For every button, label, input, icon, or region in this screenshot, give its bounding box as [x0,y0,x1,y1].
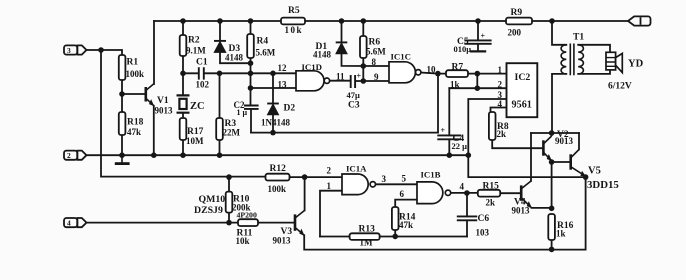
svg-text:10M: 10M [186,136,204,146]
svg-text:10k: 10k [236,236,250,246]
wire C6 top lead [466,193,468,216]
wire feedback net R13 left [320,236,350,238]
svg-text:R9: R9 [511,8,523,18]
svg-text:11: 11 [336,72,345,82]
svg-text:IC2: IC2 [515,72,531,83]
wire T1 primary top lead [552,21,566,45]
wire D2 top lead [272,73,274,103]
svg-text:IC1C: IC1C [391,52,412,62]
svg-text:8: 8 [372,57,377,67]
wire V3 collector riser [304,177,306,210]
svg-text:QM10: QM10 [199,194,226,205]
svg-text:100k: 100k [126,69,145,79]
svg-text:103: 103 [476,228,490,238]
wire V5 base from node [552,161,571,163]
svg-text:R2: R2 [188,36,200,46]
resistor R3 [216,118,223,140]
wire right edge V5 emitter to bottom rail [585,177,587,250]
wire IC1C pin 8 [363,65,389,67]
wire C5 bottom stub [477,44,479,51]
svg-text:ZC: ZC [190,101,205,112]
nand gate IC1A [342,174,375,195]
wire collector node horizontal [531,132,579,134]
wire ZC bottom to R17 [182,113,184,118]
svg-text:2: 2 [498,79,503,89]
svg-text:4148: 4148 [313,50,332,60]
wire T1 secondary top to speaker [578,45,610,53]
junction R16 bottom rail [549,247,555,253]
transistor V4 [521,181,531,208]
wire R2 bottom lead [182,56,184,73]
svg-text:3: 3 [382,174,387,184]
wire R4 top lead [250,21,252,34]
wire T1 secondary bottom to speaker [578,70,610,74]
svg-text:+: + [441,126,446,135]
junction pin8 node [361,63,367,69]
wire C4 bottom to ground rail [448,139,450,155]
wire top supply rail middle segment [305,20,506,22]
wire C2/D2 net riser [437,74,439,133]
svg-text:5: 5 [402,173,407,183]
junction D2 bottom [270,130,276,136]
resistor R14 [392,207,399,230]
nand gate IC1D [296,71,330,91]
svg-text:2: 2 [327,166,332,176]
junction D3 top rail [217,18,223,24]
wire R18 bottom to ground rail [121,135,123,155]
svg-text:IC1B: IC1B [421,169,441,179]
wire D1 top lead [341,21,343,42]
junction R17 ground [180,152,186,158]
svg-text:13: 13 [278,79,288,89]
wire pin2 jog down [476,74,478,89]
svg-text:5.6M: 5.6M [256,48,276,58]
wire C4 drop [448,88,450,135]
svg-text:6: 6 [400,189,405,199]
resistor R8 [489,112,496,140]
junction input tie pin12 [248,71,254,77]
wire R14 bottom lead [394,230,396,236]
resistor R5 [281,18,305,25]
wire base node to R18 top [121,94,123,112]
connector 2 (middle left plug) [64,151,87,160]
resistor R13 [350,233,380,240]
speaker YD [606,52,622,72]
capacitor C6 [457,216,477,220]
svg-text:1 μ: 1 μ [237,108,248,117]
svg-text:9013: 9013 [555,136,574,146]
svg-text:47k: 47k [399,220,413,230]
wire R4 bottom through input tie [250,58,252,88]
junction R6 top rail [361,18,367,24]
wire base node to V1 base [122,93,145,95]
junction pin3 ground [466,152,472,158]
capacitor C2 [244,106,259,109]
svg-text:9013: 9013 [512,206,531,216]
wire ground rail [87,154,469,156]
node V1 base [119,91,125,97]
wire D3 bottom over to R4 lead [220,52,251,63]
svg-text:5.6M: 5.6M [366,47,386,57]
svg-text:6/12V: 6/12V [608,82,632,92]
svg-text:DZSJ9: DZSJ9 [194,205,223,216]
junction R4 top rail [248,18,254,24]
wire C2 top lead [250,88,252,105]
svg-text:C1: C1 [196,58,208,68]
capacitor C5 [464,40,491,51]
wire feedback net R13 right to C6 [380,236,467,238]
wire bottom rail [305,249,586,251]
wire V1 emitter to ground rail [153,106,155,155]
resistor R11 [238,219,258,226]
svg-text:R13: R13 [359,224,376,234]
svg-text:9013: 9013 [273,236,292,246]
junction R14/R13 net [392,234,398,240]
junction T1 top rail [549,18,555,24]
svg-text:V5: V5 [588,166,601,177]
junction IC1B output/C6 [464,190,470,196]
resistor R12 [266,174,290,181]
junction R10/connector4 [226,220,232,226]
svg-text:200: 200 [508,28,522,38]
resistor R15 [478,190,500,197]
wire IC2 pin 4 to R8 [491,108,507,113]
svg-text:V1: V1 [157,96,169,106]
svg-text:R5: R5 [288,6,300,16]
wire top supply rail left segment [154,20,281,22]
wire pin12 net: C1 to IC1D pin 12 [204,72,296,74]
svg-text:R15: R15 [483,181,500,191]
wire R2 top lead [182,21,184,35]
svg-text:R4: R4 [257,37,269,47]
ground symbol [115,155,130,163]
wire IC2 pin 2 [449,87,506,89]
capacitor C1 [199,67,204,79]
junction R3 ground [217,152,223,158]
junction D3/R4 [248,60,254,66]
wire R1 bottom to base node [121,80,123,94]
wire V1 collector to top rail [153,21,155,84]
svg-text:R18: R18 [127,118,144,128]
junction R3 tap pin12 [217,71,223,77]
wire R10 bottom lead [228,213,230,223]
diode D2 [267,104,279,115]
junction D1 top rail [339,18,345,24]
svg-text:100k: 100k [268,184,287,194]
svg-text:22M: 22M [223,128,241,138]
svg-text:C6: C6 [478,214,490,224]
junction V5 emitter rail [583,174,589,180]
svg-text:2k: 2k [497,129,507,139]
svg-text:1: 1 [498,65,503,75]
wire C2/D2 net to IC1C output [251,132,438,134]
wire input node vertical down to lower rail [101,50,266,177]
svg-text:1k: 1k [450,80,460,90]
wire V4 collector riser [530,133,532,181]
svg-text:47μ: 47μ [347,90,361,100]
junction V1 emitter ground [151,152,157,158]
wire D2 bottom lead [272,115,274,133]
wire V2 emitter node down to V4 emitter node [551,161,553,208]
wire R11 to V3 base [258,222,295,224]
wire IC1D output to C3 [330,80,350,82]
svg-text:YD: YD [628,59,644,70]
wire D3 top lead [219,21,221,41]
wire IC1C output to R7 [421,73,446,74]
resistor R16 [548,214,555,240]
wire IC2 pin 3 to ground [468,99,506,155]
resistor R18 [119,112,126,135]
transformer T1 [561,44,583,76]
resistor R7 [446,70,468,77]
svg-text:102: 102 [196,80,210,90]
svg-text:IC1D: IC1D [302,62,323,72]
svg-text:10k: 10k [285,25,304,35]
junction R18 ground [119,152,125,158]
junction C5 top rail [475,18,481,24]
resistor R17 [180,118,187,140]
svg-text:9561: 9561 [512,100,532,111]
junction V2 emitter/V5 base [549,159,555,165]
connector 4 (bottom left plug) [64,218,87,227]
wire T1 primary bottom to collector node [552,74,566,133]
junction C4 ground [447,152,453,158]
wire R17 bottom to ground rail [182,140,184,155]
wire D1 bottom over to pin8 node [342,52,364,66]
junction collector node [549,130,555,136]
junction output10/C2D2 riser [435,71,441,77]
svg-text:3: 3 [67,46,71,55]
connector 3 (top left plug) [64,45,87,54]
svg-text:12: 12 [278,63,288,73]
svg-text:9013: 9013 [155,106,174,116]
capacitor C3 [351,75,355,88]
svg-text:9.1M: 9.1M [186,46,206,56]
wire V4 emitter to R16 node [532,207,552,209]
wire IC1B pin6 jog to R14 [395,200,417,207]
crystal ZC [177,95,190,112]
svg-text:1k: 1k [556,229,566,239]
wire R7 to IC2 pin 1 [468,73,507,75]
svg-text:2k: 2k [486,198,496,208]
transistor V3 [295,210,305,235]
wire connector-3 to R1 top [87,50,123,55]
wire C5 top lead [477,21,479,40]
svg-text:47k: 47k [127,127,141,137]
wire V5 collector riser [578,133,580,149]
svg-text:9: 9 [374,72,379,82]
wire R8 bottom to V2 base [492,140,543,148]
transistor V2 [543,133,551,161]
wire R3 bottom to ground rail [219,140,221,155]
svg-text:1M: 1M [360,238,374,248]
wire IC1B output to R15 [451,192,478,194]
svg-text:4P200: 4P200 [237,211,257,220]
junction V3 collector/R12/pin2 [302,174,308,180]
svg-text:R7: R7 [452,62,464,72]
resistor R1 [119,55,126,80]
wire R12 to IC1A pin2 node [290,176,343,178]
svg-text:4: 4 [460,181,465,191]
transistor V5 [571,150,586,178]
resistor R6 [360,36,367,58]
svg-text:R1: R1 [127,58,139,68]
svg-text:4: 4 [498,99,503,109]
wire ZC top lead [182,73,184,95]
svg-text:R12: R12 [270,164,287,174]
svg-text:D2: D2 [284,104,296,114]
junction pin13/C2 [248,85,254,91]
wire connector-4 to R11 [87,222,239,224]
wire IC1A pin1 from feedback corner [320,191,342,237]
svg-text:1: 1 [327,181,332,191]
svg-text:2: 2 [67,151,71,160]
svg-text:1N4148: 1N4148 [261,118,290,128]
junction D2 tap pin12 [270,71,276,77]
wire IC1D pin 13 [251,87,297,89]
junction R2/C1 node [180,71,186,77]
nand gate IC1C [389,62,421,83]
wire R6 top lead [362,21,364,36]
wire C3 to IC1C pin 9 [356,80,389,82]
svg-text:IC1A: IC1A [346,164,367,174]
junction R2 top rail [180,18,186,24]
wire pin8-pin9 tie [362,66,364,81]
wire R6 bottom lead [362,58,364,66]
svg-text:3DD15: 3DD15 [587,179,619,191]
wire R16 bottom to bottom rail [551,240,553,249]
capacitor C4 [437,135,461,139]
svg-text:C3: C3 [348,101,360,111]
wire ground jog to lower right rail [468,155,585,177]
svg-text:22 μ: 22 μ [452,141,468,151]
wire R3 top lead [219,73,221,118]
wire top supply rail right segment [532,20,628,22]
resistor R10 [226,192,233,213]
connector 1 (top right plug) [628,16,651,25]
wire C6 bottom lead [466,220,468,236]
junction pin9/C3 node [361,78,367,84]
diode D1 [336,42,348,53]
resistor R2 [180,35,187,56]
junction R7/pin1 [475,71,481,77]
svg-text:4148: 4148 [225,53,244,63]
junction R10 top [226,174,232,180]
svg-text:4: 4 [67,218,71,227]
nand gate IC1B [417,182,451,204]
wire R15 to V4 base [500,192,521,194]
wire R10 top lead [228,177,230,192]
resistor R9 [506,18,532,25]
diode D3 [214,41,226,52]
transistor V1 [146,84,154,106]
svg-text:+: + [357,72,362,81]
wire C2 bottom corner [250,109,252,133]
wire V3 emitter to bottom rail [303,235,305,249]
wire pin12 net: R2 node to C1 [183,72,198,74]
wire IC1A output to IC1B pin5 [376,183,417,185]
resistor R4 [247,34,254,58]
junction V4 emitter/R16 [549,206,555,212]
junction pin2/C4 [475,85,481,91]
svg-text:010μ: 010μ [454,44,472,54]
svg-text:10: 10 [427,64,437,74]
ic IC2 box [507,63,538,117]
svg-text:T1: T1 [573,33,584,43]
svg-text:+: + [481,32,486,41]
node input3 [98,47,104,53]
